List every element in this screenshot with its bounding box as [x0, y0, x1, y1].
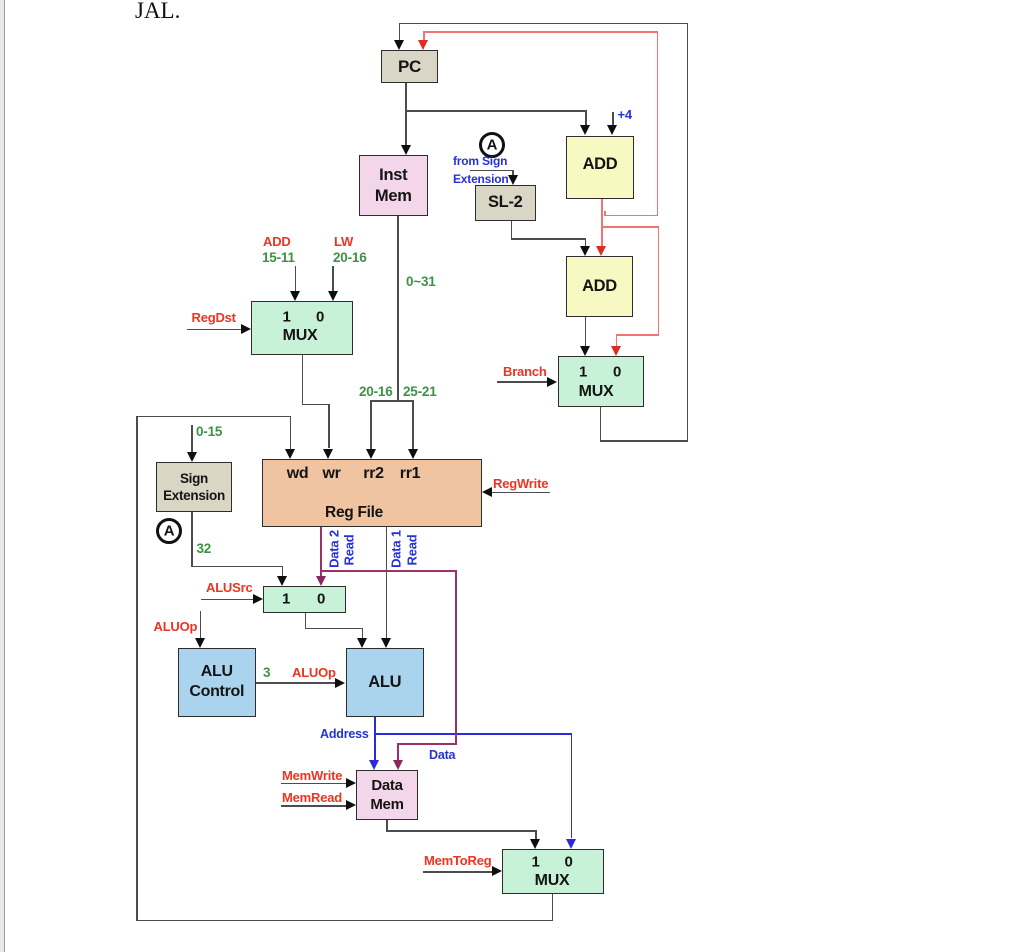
wire red jump feedback into PC	[423, 31, 425, 41]
wire MemRead control	[281, 805, 346, 807]
wire from Sign Extension into SL-2	[470, 170, 514, 172]
register PC	[381, 50, 438, 83]
label 32 (green)	[197, 541, 212, 556]
mux MUX Branch	[558, 356, 644, 407]
adder ADD (branch target)	[566, 256, 633, 318]
label +4 (blue)	[618, 107, 632, 122]
label Address (blue)	[320, 727, 369, 741]
wire Data Mem output to MUX MemToReg	[386, 820, 388, 831]
label RegDst (red)	[192, 310, 236, 325]
wire ALUOp into ALU Control	[200, 611, 202, 638]
mux ALUSrc	[263, 586, 346, 614]
label 20-16 lower (green)	[359, 384, 393, 399]
wire Inst Mem output bus 0~31	[397, 216, 399, 402]
page left edge strip	[0, 0, 4, 952]
mux MUX RegDst	[251, 301, 353, 355]
label Read Data 2 rotated (blue)	[327, 530, 342, 568]
label from Sign Extension (blue)	[453, 154, 507, 168]
mux MUX MemToReg	[502, 849, 605, 895]
wire MemToReg control	[423, 871, 492, 873]
wire +4 constant into first ADD	[612, 112, 614, 127]
wire write-back loop from MUX MemToReg to wd	[552, 894, 554, 920]
wire MemWrite control	[281, 783, 346, 785]
wire PC branch to first ADD	[406, 110, 587, 112]
wire bits 15-11 into MUX RegDst	[295, 266, 297, 291]
label 15-11 (green)	[262, 250, 295, 265]
label ALUSrc (red)	[206, 580, 252, 595]
wire RegDst control	[187, 329, 241, 331]
label MemWrite (red)	[282, 768, 342, 783]
shifter SL-2	[475, 185, 536, 222]
wire blue ALU result to MUX MemToReg	[374, 733, 572, 735]
instruction memory Inst Mem	[359, 155, 429, 216]
wire red first ADD output to MUX Branch	[601, 226, 660, 228]
register file Reg File	[262, 459, 482, 527]
label Read Data 1 rotated (blue)	[389, 530, 404, 568]
wire MUX RegDst output to wr	[302, 355, 304, 404]
wire purple Read Data 2 to MUX ALUSrc	[320, 527, 322, 576]
label 3 (green)	[263, 665, 270, 680]
label ADD (red)	[263, 234, 291, 249]
adder ADD (PC+4)	[566, 136, 634, 199]
wire bits 20-16 into MUX RegDst	[332, 266, 334, 291]
wire Sign Extension output to MUX ALUSrc	[191, 512, 193, 567]
label MemRead (red)	[282, 790, 342, 805]
wire PC to Inst Mem	[405, 83, 407, 146]
label Data (blue)	[429, 748, 455, 762]
wire ALUSrc control	[201, 599, 254, 601]
wire second ADD output to MUX Branch	[585, 317, 587, 346]
node A circle (top, near SL-2)	[479, 132, 505, 158]
label MemToReg (red)	[424, 853, 492, 868]
wire bits 25-21 to rr1	[412, 400, 414, 449]
label 20-16 (green)	[333, 250, 367, 265]
label LW (red)	[334, 234, 353, 249]
label ALUOp upper (red)	[154, 619, 198, 634]
wire bits 0-15 into Sign Extension	[191, 425, 193, 453]
ALU	[346, 648, 425, 717]
node A circle (left, below Sign Extension)	[156, 518, 182, 544]
caption text JAL.	[135, 0, 180, 24]
data memory Data Mem	[356, 770, 418, 820]
wire bits 20-16 to rr2	[370, 400, 372, 449]
wire SL-2 output to second ADD	[511, 221, 513, 239]
label 0-15 (green)	[196, 424, 222, 439]
label Branch (red)	[503, 364, 547, 379]
label 25-21 (green)	[403, 384, 437, 399]
wire Read Data 1 to ALU	[386, 527, 388, 639]
label 0~31 (green)	[406, 274, 436, 289]
label RegWrite (red)	[493, 476, 548, 491]
ALU control unit	[178, 648, 257, 718]
wire RegWrite control	[491, 492, 550, 494]
wire ALU Control to ALU (3 / ALUOp)	[256, 682, 335, 684]
label ALUOp lower (red)	[292, 665, 336, 680]
wire MUX ALUSrc output to ALU	[305, 613, 307, 629]
wire red first ADD output to second ADD	[601, 199, 603, 246]
wire Branch control	[497, 381, 548, 383]
sign extension unit	[156, 462, 232, 512]
wire next-PC loop into PC (black feedback from MUX Branch)	[399, 23, 401, 41]
wire purple Read Data 2 to Data Mem write data	[320, 570, 456, 572]
wire blue ALU result to Data Mem address	[374, 717, 376, 761]
